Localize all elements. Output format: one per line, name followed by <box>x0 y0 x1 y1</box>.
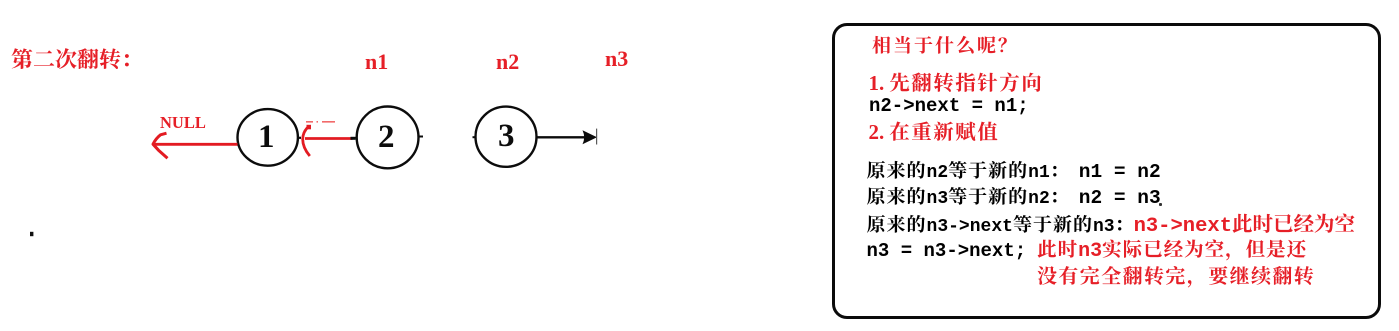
stray dot after b2 <box>1159 203 1162 206</box>
node 3 circle <box>476 107 537 167</box>
box line b4: n3 = n3->next; 此时n3实际已经为空，但是还 <box>867 239 1308 264</box>
box line t1: 相当于什么呢？ <box>872 36 1019 58</box>
diagram svg <box>0 0 700 331</box>
node label n2 <box>496 49 519 75</box>
box line t2: 1. 先翻转指针方向 <box>869 70 1044 96</box>
stray dot <box>30 232 33 236</box>
box line b3: 原来的n3->next等于新的n3：n3->next此时已经为空 <box>867 213 1356 239</box>
tick left of node 3 <box>473 136 477 138</box>
title 第二次翻转： <box>11 47 143 73</box>
right box <box>832 23 1381 319</box>
vertical end tick <box>596 129 598 145</box>
node 3 arrow shaft <box>537 136 586 138</box>
tick right of node 1 <box>297 137 301 139</box>
red dash-dot line <box>306 121 335 123</box>
box line b2: 原来的n3等于新的n2：n2 = n3 <box>867 186 1161 210</box>
tick left of node 2 <box>351 137 356 140</box>
arrow 2 to 1 head (hand-drawn curl) <box>303 127 310 157</box>
node 2 circle <box>357 106 419 168</box>
node 1 circle <box>238 109 298 166</box>
box line t3: n2->next = n1; <box>869 95 1029 117</box>
box line b1: 原来的n2等于新的n1：n1 = n2 <box>867 160 1161 184</box>
digit 1 <box>258 118 275 157</box>
arrow 2 to 1 shaft <box>305 137 353 140</box>
NULL arrow shaft <box>154 143 238 146</box>
curl blob <box>307 125 312 130</box>
tick right of node 2 <box>418 136 423 138</box>
node label n3 <box>605 46 628 72</box>
node label n1 <box>365 49 388 75</box>
node 3 arrow head <box>583 130 598 144</box>
NULL arrow head <box>153 133 168 158</box>
NULL label <box>160 113 206 132</box>
box line t4: 2. 在重新赋值 <box>869 119 1000 145</box>
digit 3 <box>498 117 515 156</box>
digit 2 <box>378 118 395 157</box>
box line b5: 没有完全翻转完，要继续翻转 <box>1037 266 1315 290</box>
